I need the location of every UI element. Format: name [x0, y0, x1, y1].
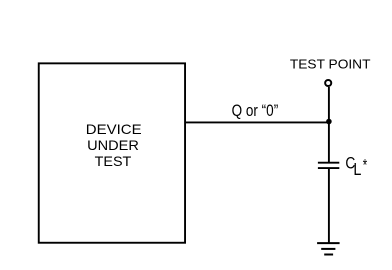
svg-text:TEST POINT: TEST POINT: [290, 57, 371, 72]
svg-text:TEST: TEST: [95, 154, 132, 169]
device under test box: [39, 63, 185, 242]
capacitor CL: [318, 163, 339, 168]
svg-text:Q or “0”: Q or “0”: [232, 101, 279, 120]
test point terminal (open circle): [325, 80, 331, 86]
wire: DUT output to node: [185, 121, 329, 123]
value label: CL*: [345, 155, 367, 180]
label: DEVICE UNDER TEST: [86, 122, 142, 169]
svg-text:*: *: [363, 156, 368, 175]
svg-text:UNDER: UNDER: [87, 138, 139, 153]
wire: test point to node: [328, 87, 330, 122]
junction node: [326, 119, 332, 125]
label: TEST POINT: [290, 57, 371, 72]
svg-text:DEVICE: DEVICE: [86, 122, 142, 137]
ground: [317, 243, 340, 254]
net label: Q or "0": [232, 101, 279, 120]
wire: node to capacitor: [328, 122, 330, 162]
svg-text:L: L: [353, 159, 361, 179]
wire: capacitor to ground: [328, 169, 330, 244]
